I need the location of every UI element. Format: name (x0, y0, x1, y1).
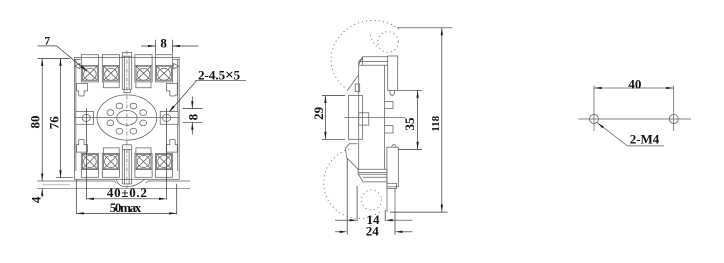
dimension 8 right extension lines (183, 97, 203, 135)
arrow 80 top (41, 58, 43, 66)
panel line upper (37, 181, 190, 183)
step under T2 (103, 82, 119, 88)
arrow 40 left (86, 198, 94, 200)
arrow 50 left (76, 212, 84, 214)
svg-text:40: 40 (628, 76, 641, 91)
bottom center bump (116, 179, 144, 187)
top terminal block T3 (135, 55, 152, 82)
foot above B4 (166, 140, 177, 153)
pin hole 6 (right-lower) (140, 120, 147, 126)
top terminal block T4 (155, 55, 172, 82)
left block (29 dim) (348, 96, 362, 140)
svg-text:118: 118 (430, 115, 442, 131)
right stub upper (385, 102, 394, 109)
svg-text:8: 8 (160, 36, 167, 51)
side view cap (359, 57, 388, 66)
release lever (347, 75, 360, 91)
dotted swing arc top large (331, 20, 398, 87)
pin hole 5 (left-lower) (107, 120, 114, 126)
svg-text:7: 7 (44, 35, 50, 47)
arrow 35 bottom (416, 142, 418, 150)
panel line lower (37, 187, 190, 189)
leader 2-4.5x5 (170, 81, 246, 112)
pin hole 3 (left-upper) (107, 110, 114, 116)
mounting hole right (669, 115, 678, 124)
svg-text:35: 35 (402, 117, 417, 131)
arrow leader 2-4.5x5 (169, 106, 175, 112)
svg-text:76: 76 (46, 116, 61, 130)
arrow 24 left (340, 231, 348, 233)
svg-text:29: 29 (311, 106, 326, 120)
svg-text:24: 24 (366, 223, 380, 238)
svg-text:8: 8 (185, 113, 200, 120)
arrow 14 right (385, 219, 393, 221)
svg-text:2-4.5×5: 2-4.5×5 (198, 68, 241, 84)
arrowheads side view (324, 28, 443, 233)
front view vertical center line (dashed) (126, 51, 128, 189)
front view body outline (74, 57, 179, 179)
dimension 14 lines (335, 186, 413, 221)
foot above B1 (77, 140, 88, 153)
arrow 8 right-dim up (191, 122, 193, 130)
bottom terminal block B4 (155, 154, 172, 178)
mounting hole right vertical line (673, 86, 675, 132)
step above B2 (103, 148, 119, 154)
svg-text:80: 80 (27, 116, 42, 129)
arrow 76 bottom (59, 170, 61, 178)
dotted clip top small (371, 32, 399, 53)
top terminal block T1 (81, 55, 98, 82)
arrow 80 bottom (41, 174, 43, 182)
arrow leader 2-M4 (597, 123, 604, 129)
dimension 118 lines (390, 28, 453, 212)
corner rib mark right (174, 64, 179, 69)
front view corner step left (74, 59, 80, 171)
dimension 40 line (594, 87, 674, 89)
pin hole 1 (top-left) (116, 103, 123, 109)
arrow 29 top (324, 96, 326, 104)
foot under T1 (77, 83, 88, 96)
dimension 40±0.2 lines (86, 108, 166, 199)
front view horizontal center line (75, 117, 180, 119)
central octal ring (large ellipse) (97, 95, 157, 140)
bottom terminal block B1 (81, 154, 98, 178)
mounting plan horizontal center line (579, 118, 692, 120)
dimension 24 lines (335, 159, 413, 235)
dimension 4 lower arrow line (41, 188, 43, 197)
corner rib mark left (75, 64, 80, 69)
dimensions: side view (322, 28, 453, 235)
arrow 50 right (169, 212, 177, 214)
dotted swing arc bottom large (324, 149, 383, 218)
foot under T4 (166, 83, 177, 96)
dimension 80 extension+line (38, 58, 71, 181)
center key hole (117, 110, 137, 125)
arrow 40 left (594, 87, 602, 89)
arrow 8 left (148, 45, 156, 47)
arrow 118 top (441, 28, 443, 36)
arrow 14 left (350, 219, 358, 221)
arrowheads front view (41, 45, 193, 215)
arrow leader 7 (81, 66, 87, 72)
top center key tab (122, 53, 131, 93)
base plate (358, 169, 387, 183)
dimension 29 lines (322, 96, 345, 140)
arrow 29 bottom (324, 132, 326, 140)
arrow 40 right (666, 87, 674, 89)
rail block lower right (387, 144, 398, 212)
inner square (359, 113, 369, 125)
dimension 35 lines (398, 90, 422, 149)
panel faint line (42, 184, 70, 186)
pin hole 7 (bottom-left) (116, 128, 123, 134)
arrow 8 right (172, 45, 180, 47)
bottom terminal block B3 (135, 154, 152, 178)
step under T3 (136, 82, 151, 88)
dimension 76 line (56, 58, 73, 177)
top terminal block T2 (102, 55, 119, 82)
step above B3 (136, 148, 151, 154)
left mounting tab (76, 111, 94, 124)
pin hole 4 (right-upper) (140, 110, 147, 116)
mounting hole left vertical line (593, 86, 595, 132)
arrow 8 right-dim down (191, 101, 193, 109)
arrow 4 up (41, 188, 43, 196)
svg-text:4: 4 (28, 196, 43, 203)
pin hole 2 (top-right) (130, 103, 137, 109)
bottom center key tab (122, 145, 131, 184)
clip lug (346, 144, 359, 170)
svg-text:50max: 50max (110, 200, 142, 215)
arrow 35 top (416, 90, 418, 98)
arrow 76 top (59, 58, 61, 66)
dimension 50max lines (76, 180, 176, 214)
bottom terminal block B2 (102, 154, 119, 178)
front view corner step right (173, 59, 179, 171)
arrow 24 right (395, 231, 403, 233)
leader 2-M4 (597, 123, 664, 146)
mounting hole left (590, 115, 599, 124)
right mounting tab (160, 111, 178, 124)
right stub lower (385, 126, 394, 134)
svg-text:2-M4: 2-M4 (630, 132, 660, 147)
dotted clip bottom small (362, 190, 382, 210)
arrow 40 right (159, 198, 167, 200)
side view top flange (388, 56, 398, 96)
pin hole 8 (bottom-right) (130, 128, 137, 134)
side view center line (345, 117, 406, 119)
arrow 118 bottom (441, 205, 443, 213)
svg-text:40±0.2: 40±0.2 (107, 185, 147, 200)
dimension 8 top extension lines (141, 40, 199, 54)
leader 7 (38, 46, 87, 71)
side view body (359, 61, 385, 169)
